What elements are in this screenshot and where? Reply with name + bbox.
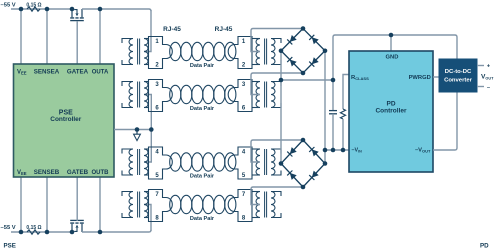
wire VEE bottom — [20, 177, 22, 232]
wire tap riser pair1-2 (PD) to bridge top — [251, 29, 303, 52]
transformer T2 (pair 3-6, PSE side) — [129, 82, 133, 108]
junction dot (333,80) — [331, 78, 336, 83]
svg-text:DC-to-DC: DC-to-DC — [445, 69, 472, 75]
svg-text:+: + — [487, 64, 491, 70]
wire tap riser pair4-5 (PD) to bridge2 top — [251, 140, 303, 162]
svg-text:VOUT: VOUT — [481, 74, 494, 81]
node dot DB1 left — [279, 48, 284, 53]
svg-text:0.15 Ω: 0.15 Ω — [26, 2, 41, 8]
svg-text:PWRGD: PWRGD — [409, 75, 431, 81]
svg-text:Converter: Converter — [444, 78, 473, 84]
net GND rail — [333, 35, 457, 111]
junction dot (72,9) — [70, 7, 75, 12]
RJ-45 jack right (pair 7-8) — [228, 190, 252, 222]
node dot DB2 left — [279, 161, 284, 166]
twisted pair (pair 7-8) — [170, 195, 181, 213]
node dot DB1 right — [323, 48, 328, 53]
svg-text:2: 2 — [155, 63, 159, 69]
svg-text:–VOUT: –VOUT — [415, 148, 431, 154]
svg-text:1: 1 — [242, 39, 246, 45]
svg-text:PD: PD — [386, 101, 395, 108]
wire tap riser pair1-2 (PSE) — [144, 10, 151, 52]
transformer T3 (pair 4-5, PSE side) — [129, 149, 133, 175]
svg-text:Controller: Controller — [375, 108, 407, 115]
svg-text:1: 1 — [155, 39, 159, 45]
wire GATEA — [76, 21, 78, 64]
junction dot (333,150) — [331, 148, 336, 153]
wire GATEB — [76, 177, 78, 221]
svg-text:RJ-45: RJ-45 — [215, 26, 233, 33]
transformer T8 (pair 7-8, PD side) — [256, 192, 260, 218]
junction dot (281,80) — [279, 78, 284, 83]
transistor Q2 (PSE hot-swap MOSFET, bottom) — [71, 224, 73, 232]
junction dot (100,232) — [98, 230, 103, 235]
svg-text:5: 5 — [242, 173, 246, 179]
svg-text:Data Pair: Data Pair — [190, 106, 215, 112]
junction dot (72,232) — [70, 230, 75, 235]
svg-text:OUTA: OUTA — [92, 70, 109, 76]
junction dot (391,35) — [389, 33, 394, 38]
diode DB2 bottom-left (bottom to left) — [290, 173, 297, 180]
diode DB1 top-right (right to top) — [312, 37, 319, 44]
node dot DB2 top — [301, 138, 306, 143]
svg-text:RCLASS: RCLASS — [351, 75, 369, 81]
wire tap riser pair7-8 (PD) to bridge2 bottom — [251, 187, 303, 205]
svg-text:GATEA: GATEA — [67, 69, 89, 76]
svg-text:Data Pair: Data Pair — [190, 174, 215, 180]
RJ-45 jack right (pair 1-2) — [228, 37, 252, 69]
diode DB1 bottom-left (bottom to left) — [290, 60, 297, 67]
net -55V bottom rail (left segment) — [11, 231, 72, 233]
svg-text:7: 7 — [242, 192, 246, 198]
junction dot (100,9) — [98, 7, 103, 12]
wire -VOUT to converter — [433, 92, 457, 150]
diode DB2 top-left (top to left) — [290, 147, 297, 154]
net -55V bottom rail (right segment) — [82, 230, 151, 232]
RJ-45 jack left (pair 7-8) — [149, 190, 173, 222]
svg-text:5: 5 — [155, 173, 159, 179]
PD Controller U2 box — [349, 51, 433, 172]
svg-text:Data Pair: Data Pair — [190, 216, 215, 222]
resistor Rs2 0.15 ohm (bottom sense) — [27, 230, 40, 234]
twisted pair (pair 4-5) — [170, 153, 181, 171]
wire tap riser pair3-6 (PD) to bridge bottom — [251, 73, 303, 95]
svg-text:0.15 Ω: 0.15 Ω — [26, 225, 41, 231]
junction dot (21,232) — [19, 230, 24, 235]
resistor RCLASS (class select) — [343, 75, 349, 110]
svg-text:RJ-45: RJ-45 — [163, 26, 181, 33]
svg-text:6: 6 — [155, 106, 159, 112]
svg-text:OUTB: OUTB — [92, 170, 110, 176]
svg-text:Data Pair: Data Pair — [190, 63, 215, 69]
junction dot (151,129.5) — [149, 127, 154, 132]
junction dot (343,150) — [341, 148, 346, 153]
svg-text:PSE: PSE — [4, 243, 16, 249]
PSE Controller U1 box — [14, 64, 115, 177]
diode DB2 top-right (right to top) — [312, 149, 319, 156]
wire GND pin — [390, 35, 392, 51]
svg-text:GATEB: GATEB — [67, 169, 89, 176]
RJ-45 jack right (pair 4-5) — [228, 147, 252, 179]
node dot DB1 bottom — [301, 71, 306, 76]
wire SENSEB — [46, 177, 48, 232]
wire bridge - bus (right nodes tie) — [324, 51, 326, 164]
transformer T4 (pair 7-8, PSE side) — [129, 192, 133, 218]
svg-text:GND: GND — [386, 55, 399, 61]
svg-text:–: – — [487, 85, 491, 91]
diode DB2 bottom-right (right to bottom) — [312, 171, 319, 178]
junction dot (47,232) — [45, 230, 50, 235]
RJ-45 jack left (pair 3-6) — [149, 80, 173, 112]
wire bridge + bus (left nodes tie) — [280, 51, 282, 164]
junction dot (325,150) — [323, 148, 328, 153]
transistor Q1 (PSE hot-swap MOSFET, top) — [71, 9, 73, 17]
svg-text:8: 8 — [155, 216, 159, 222]
svg-text:4: 4 — [155, 150, 159, 156]
net -55V top rail (right segment) — [82, 9, 151, 11]
wire OUTB — [99, 177, 101, 232]
svg-text:SENSEB: SENSEB — [34, 169, 60, 176]
wire SENSEA — [46, 9, 48, 64]
wire - output stub — [477, 86, 484, 88]
junction dot (47,9) — [45, 7, 50, 12]
svg-text:3: 3 — [155, 82, 159, 88]
diode DB1 bottom-right (right to bottom) — [312, 57, 319, 64]
wire OUTA — [99, 9, 101, 64]
ground arrow (AGND) — [136, 130, 138, 135]
wire PWRGD to converter — [433, 76, 439, 78]
svg-text:–55 V: –55 V — [1, 225, 16, 231]
twisted pair (pair 1-2) — [170, 42, 181, 60]
svg-text:SENSEA: SENSEA — [34, 69, 60, 76]
svg-text:VEE: VEE — [17, 170, 27, 176]
svg-text:8: 8 — [242, 216, 246, 222]
diode bridge DB2 outline — [281, 140, 325, 187]
junction dot (137,129.5) — [135, 127, 140, 132]
svg-text:Controller: Controller — [50, 116, 82, 123]
svg-text:VEE: VEE — [17, 70, 27, 76]
svg-text:PD: PD — [480, 243, 489, 249]
wire tap riser pairs 3-6/4-5 (PSE) — [144, 95, 151, 163]
transformer T7 (pair 4-5, PD side) — [256, 149, 260, 175]
RJ-45 jack left (pair 4-5) — [149, 147, 173, 179]
svg-text:7: 7 — [155, 192, 159, 198]
diode DB1 top-left (top to left) — [290, 35, 297, 42]
wire C1 to -VIN rail — [332, 114, 334, 150]
RJ-45 jack right (pair 3-6) — [228, 80, 252, 112]
junction dot (21,9) — [19, 7, 24, 12]
RJ-45 jack left (pair 1-2) — [149, 37, 173, 69]
node dot DB1 top — [301, 26, 306, 31]
node dot DB2 bottom — [301, 185, 306, 190]
wire + output to GND net — [281, 79, 333, 81]
capacitor C1 (input bulk) — [329, 110, 337, 112]
svg-text:3: 3 — [242, 82, 246, 88]
net -VIN rail — [325, 149, 349, 151]
wire + output stub — [477, 65, 484, 67]
DC-to-DC Converter U3 box — [439, 59, 477, 92]
transformer T1 (pair 1-2, PSE side) — [129, 39, 133, 65]
node dot DB2 right — [323, 161, 328, 166]
net -55V top rail (left segment) — [11, 8, 72, 10]
diode bridge DB1 outline — [281, 29, 325, 74]
svg-text:–55 V: –55 V — [1, 2, 16, 8]
resistor Rs1 0.15 ohm (top sense) — [27, 7, 40, 11]
wire VEE top — [20, 9, 22, 64]
svg-text:4: 4 — [242, 150, 246, 156]
twisted pair (pair 3-6) — [170, 85, 181, 103]
svg-text:2: 2 — [242, 63, 246, 69]
wire tap riser pair7-8 (PSE) — [144, 205, 151, 232]
svg-text:6: 6 — [242, 106, 246, 112]
wire AGND (PSE right side) — [114, 129, 151, 131]
transformer T6 (pair 3-6, PD side) — [256, 82, 260, 108]
transformer T5 (pair 1-2, PD side) — [256, 39, 260, 65]
